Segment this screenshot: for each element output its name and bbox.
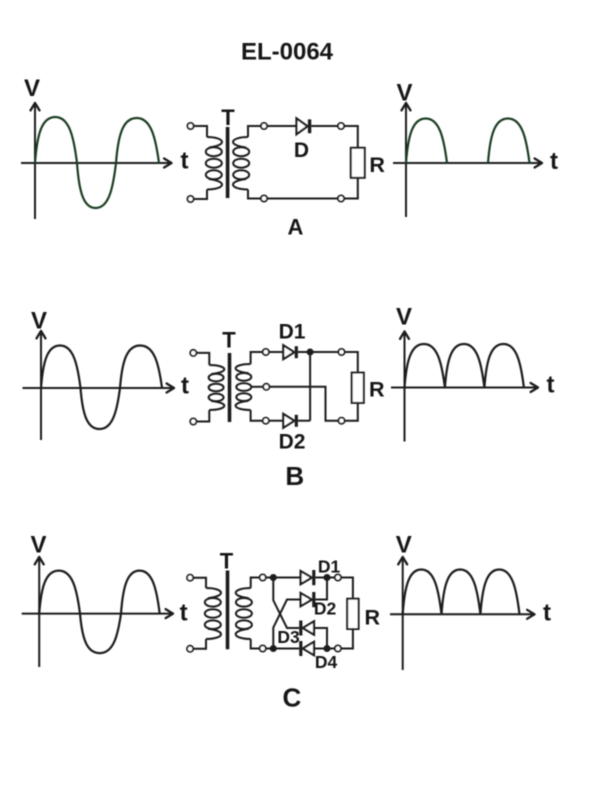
wire to resistor R (B) xyxy=(345,352,358,373)
wire junction to D4 (C) xyxy=(273,648,299,650)
wire bottom rail (A) xyxy=(267,198,338,200)
wire D2 to junction (B) xyxy=(298,420,310,422)
wire diode to node (A) xyxy=(311,125,338,127)
transformer T (B) primary terminal bottom xyxy=(190,418,196,424)
svg-text:D2: D2 xyxy=(279,431,306,454)
svg-text:A: A xyxy=(288,215,304,240)
transformer T (C) primary terminal bottom xyxy=(187,646,193,652)
transformer T (A) primary terminal bottom xyxy=(187,196,193,202)
graph B input V axis xyxy=(37,331,46,440)
svg-text:V: V xyxy=(396,532,412,559)
svg-text:V: V xyxy=(396,304,412,331)
graph B output V axis xyxy=(400,332,409,442)
svg-text:D1: D1 xyxy=(318,556,341,576)
wire secondary bottom (C) xyxy=(251,639,260,649)
waveform A input sine xyxy=(35,117,159,208)
resistor R (C) xyxy=(347,599,358,629)
wire to diode D2 (B) xyxy=(269,420,283,422)
graph C input V axis xyxy=(35,557,44,667)
node center tap terminal (B) xyxy=(263,384,269,390)
svg-text:t: t xyxy=(180,600,188,627)
graph B output t axis xyxy=(391,383,538,392)
wire primary bottom (A) xyxy=(194,190,207,200)
svg-text:t: t xyxy=(550,148,558,175)
wire primary bottom (B) xyxy=(196,410,209,422)
svg-text:V: V xyxy=(396,80,412,107)
wire to diode D (A) xyxy=(267,125,296,127)
svg-text:T: T xyxy=(220,549,234,574)
graph A input t axis xyxy=(21,159,172,168)
diode D2 (C) xyxy=(301,592,316,607)
transformer T (B) primary terminal top xyxy=(190,350,196,356)
transformer T (B) core xyxy=(228,353,232,422)
wire junction vertical to D2 (B) xyxy=(309,352,311,421)
svg-text:T: T xyxy=(222,328,236,353)
wire to diode D1 (B) xyxy=(269,351,283,353)
diode D3 (C) xyxy=(299,621,314,636)
waveform B output full-wave xyxy=(405,344,524,388)
transformer T (C) primary terminal top xyxy=(187,575,193,581)
diode D xyxy=(297,118,312,134)
wire junction to load node (C) xyxy=(327,577,335,579)
graph C input t axis xyxy=(22,609,173,618)
transformer T (A) core xyxy=(226,127,230,198)
wire primary top (B) xyxy=(196,353,209,365)
graph A input V axis xyxy=(31,103,40,219)
wire D2 cathode up to plus junction (C) xyxy=(315,578,327,600)
wire to resistor R (C) xyxy=(341,578,353,599)
svg-text:t: t xyxy=(181,148,189,175)
wire junction to D1 (C) xyxy=(273,577,300,579)
wire secondary bottom (A) xyxy=(248,190,261,199)
wire resistor to bottom node (C) xyxy=(341,629,353,649)
wire primary top (C) xyxy=(193,578,206,588)
resistor R (B) xyxy=(352,373,364,403)
svg-text:D: D xyxy=(294,139,309,162)
svg-text:T: T xyxy=(221,105,235,130)
wire junction to load node (B) xyxy=(310,351,338,353)
wire D3 anode down to minus junction (C) xyxy=(314,628,327,649)
svg-text:D3: D3 xyxy=(277,627,300,647)
waveform B input sine xyxy=(41,346,162,430)
svg-text:R: R xyxy=(369,153,385,177)
svg-text:t: t xyxy=(181,373,189,400)
wire secondary top (A) xyxy=(248,126,261,137)
wire terminal to junction top (C) xyxy=(266,577,274,579)
junction load minus (C) xyxy=(324,645,331,652)
wire secondary bottom (B) xyxy=(251,410,263,421)
graph A output V axis xyxy=(402,103,411,217)
junction secondary bottom (C) xyxy=(270,645,277,652)
svg-text:EL-0064: EL-0064 xyxy=(241,39,334,66)
node secondary top terminal (B) xyxy=(263,349,269,355)
diode D1 xyxy=(283,345,298,359)
waveform C input sine xyxy=(39,571,160,654)
transformer T (A) primary terminal top xyxy=(187,123,193,129)
svg-text:R: R xyxy=(365,606,381,630)
node load top terminal (A) xyxy=(338,123,344,129)
wire D1 to junction (B) xyxy=(298,351,310,353)
resistor R (A) xyxy=(351,148,365,178)
graph B input t axis xyxy=(23,384,175,393)
diode D2 xyxy=(283,414,298,428)
graph A output t axis xyxy=(393,159,542,168)
svg-text:C: C xyxy=(283,683,302,713)
svg-text:D4: D4 xyxy=(315,652,338,672)
transformer T (A) primary winding xyxy=(207,137,222,148)
wire to resistor R (A) xyxy=(344,126,358,148)
wire center tap to load bottom (B) xyxy=(269,387,338,421)
wire resistor to bottom node (B) xyxy=(345,403,358,421)
graph C output t axis xyxy=(390,610,535,619)
node load top terminal (B) xyxy=(338,349,344,355)
wire D2 anode crossover to bottom junction (C) xyxy=(273,600,300,649)
junction load plus (C) xyxy=(324,574,331,581)
wire D3 cathode crossover to top junction (C) xyxy=(273,578,299,629)
diode D4 (C) xyxy=(299,641,314,656)
wire secondary center tap (B) xyxy=(251,386,264,388)
transformer T (B) secondary winding xyxy=(236,364,251,373)
transformer T (C) core xyxy=(226,571,230,650)
node secondary bottom terminal (B) xyxy=(263,418,269,424)
junction secondary top (C) xyxy=(270,574,277,581)
wire primary bottom (C) xyxy=(193,639,206,649)
wire primary top (A) xyxy=(194,126,207,137)
node secondary top terminal (A) xyxy=(261,123,267,129)
transformer T (A) secondary winding xyxy=(233,137,248,148)
transformer T (C) secondary winding xyxy=(236,588,251,598)
svg-text:V: V xyxy=(31,308,47,335)
wire load node to junction bottom right (C) xyxy=(327,648,335,650)
wire D1 to junction (C) xyxy=(315,577,327,579)
node secondary bottom terminal (A) xyxy=(261,195,267,201)
svg-text:V: V xyxy=(24,75,40,102)
transformer T (B) primary winding xyxy=(209,365,224,374)
waveform A output half-wave xyxy=(406,119,530,164)
transformer T (C) primary winding xyxy=(206,588,221,598)
wire resistor to bottom rail (A) xyxy=(344,178,358,199)
svg-text:D2: D2 xyxy=(314,599,337,619)
wire terminal to junction bottom (C) xyxy=(266,648,274,650)
wire D4 to junction (C) xyxy=(314,648,327,650)
node load bottom terminal (C) xyxy=(335,645,341,651)
wire secondary top (B) xyxy=(251,352,263,364)
node load top terminal (C) xyxy=(335,574,341,580)
node secondary bottom terminal (C) xyxy=(260,645,266,651)
node secondary top terminal (C) xyxy=(260,574,266,580)
graph C output V axis xyxy=(398,557,407,670)
svg-text:R: R xyxy=(369,378,385,402)
diode D1 (C) xyxy=(301,570,316,585)
svg-text:D1: D1 xyxy=(279,321,306,344)
svg-text:t: t xyxy=(543,600,551,627)
waveform C output full-wave xyxy=(403,570,520,615)
svg-text:t: t xyxy=(547,372,555,399)
junction cathodes (B) xyxy=(307,349,314,356)
wire secondary top (C) xyxy=(251,578,260,589)
node load bottom terminal (A) xyxy=(338,195,344,201)
svg-text:B: B xyxy=(285,461,304,491)
svg-text:V: V xyxy=(30,532,46,559)
node load bottom terminal (B) xyxy=(338,418,344,424)
